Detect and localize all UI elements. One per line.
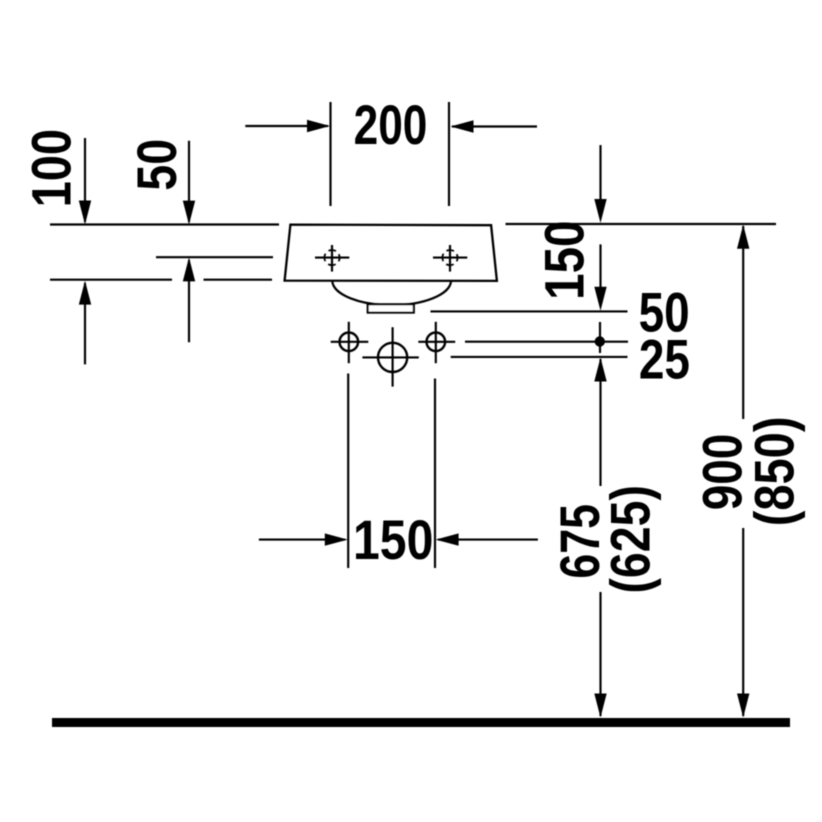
wire: tap-hole height line left bbox=[156, 256, 273, 258]
dim 100: upper arrow shaft bbox=[84, 138, 86, 222]
middle hole cross horizontal bbox=[362, 356, 418, 358]
left tap crosshair: dashed circle bbox=[324, 250, 339, 265]
wire: left datum line (basin rim extended left) bbox=[50, 223, 279, 225]
right fixing hole cross vertical bbox=[435, 322, 437, 363]
dim 675: upper shaft with up arrow bbox=[599, 359, 601, 486]
right fixing hole cross horizontal bbox=[418, 341, 455, 343]
arrowhead: dim 100 down bbox=[79, 201, 91, 225]
arrowhead: dim 50 down bbox=[183, 201, 195, 225]
dim 675: lower shaft bbox=[599, 592, 601, 716]
arrowhead: dim 675 up bbox=[594, 358, 606, 382]
arrowhead: dim 200 pointing left bbox=[451, 120, 474, 132]
arrowhead: dim 150 bottom pointing left bbox=[436, 533, 459, 545]
dim 100: lower arrow shaft bbox=[84, 283, 86, 364]
dim 150 bottom: left arrow line bbox=[259, 539, 345, 541]
right tap crosshair: vertical bbox=[449, 245, 451, 272]
left fixing hole cross vertical bbox=[348, 322, 350, 363]
basin bowl arc bbox=[332, 282, 451, 306]
left tap crosshair: horizontal bbox=[315, 257, 349, 259]
basin trapezoid body bbox=[285, 225, 497, 281]
arrowhead: dim 900 down at floor bbox=[737, 694, 749, 718]
dim 200: right extension line bbox=[448, 102, 450, 206]
wire: right datum line (basin rim extended right) bbox=[506, 223, 777, 225]
dim 900: lower shaft bbox=[742, 528, 744, 716]
dim 200: left extension line bbox=[329, 102, 331, 206]
svg-text:(625): (625) bbox=[598, 485, 661, 593]
svg-text:150: 150 bbox=[353, 509, 433, 571]
arrowhead: dim 150 right lower down bbox=[594, 287, 606, 311]
svg-text:150: 150 bbox=[534, 221, 596, 300]
dim 150 bottom: right extension line bbox=[434, 379, 436, 569]
dim 25: short vertical through dot bbox=[599, 322, 601, 353]
arrowhead: dim 675 down at floor bbox=[594, 694, 606, 718]
arrowhead: dim 50 up bbox=[183, 257, 195, 281]
dim 50 left: lower arrow shaft bbox=[188, 260, 190, 342]
dim 200: left arrow line bbox=[245, 125, 328, 127]
svg-text:100: 100 bbox=[19, 129, 82, 207]
svg-text:(850): (850) bbox=[742, 417, 805, 527]
arrowhead: dim 900 up bbox=[737, 225, 749, 249]
right tap crosshair: horizontal bbox=[433, 257, 467, 259]
dim 150 bottom: right arrow line bbox=[438, 539, 538, 541]
wire: basin bottom edge extended left (segment 2) bbox=[204, 279, 273, 281]
dot on fixing hole line bbox=[595, 336, 605, 346]
dim 150 right: lower shaft bbox=[599, 244, 601, 289]
dim 150 bottom: left extension line bbox=[347, 374, 349, 569]
svg-text:25: 25 bbox=[639, 328, 690, 390]
middle hole circle bbox=[378, 343, 407, 372]
svg-text:200: 200 bbox=[354, 93, 428, 156]
left fixing hole cross horizontal bbox=[331, 341, 369, 343]
middle hole cross vertical bbox=[392, 327, 394, 386]
wire: middle hole height line right bbox=[451, 356, 628, 358]
arrowhead: dim 150 right upper down bbox=[594, 199, 606, 223]
dim 150 right: upper shaft bbox=[599, 145, 601, 201]
wire: drain height line right bbox=[431, 310, 628, 312]
wire: basin bottom edge extended left (segment 1) bbox=[50, 279, 172, 281]
left tap crosshair: vertical bbox=[331, 245, 333, 272]
arrowhead: dim 150 bottom pointing right bbox=[325, 533, 348, 545]
right fixing hole circle bbox=[427, 333, 446, 352]
right tap crosshair: dashed circle bbox=[442, 250, 457, 265]
arrowhead: dim 100 up bbox=[79, 281, 91, 305]
dim 50 left: upper arrow shaft bbox=[188, 141, 190, 222]
floor line bbox=[52, 718, 790, 727]
drain outlet rectangle bbox=[368, 304, 414, 312]
wire: fixing hole height line right bbox=[465, 341, 628, 343]
dim 900: upper shaft bbox=[742, 226, 744, 419]
left fixing hole circle bbox=[340, 333, 359, 352]
arrowhead: dim 200 pointing right bbox=[307, 120, 330, 132]
dim 200: right arrow line bbox=[452, 125, 537, 127]
svg-text:50: 50 bbox=[125, 139, 188, 191]
